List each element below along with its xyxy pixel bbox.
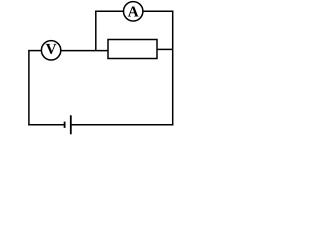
ammeter A bbox=[124, 2, 143, 21]
resistor R bbox=[108, 40, 157, 59]
wire: ammeter branch top, junction to ammeter bbox=[95, 10, 123, 12]
wire: ammeter to right vertical bbox=[143, 10, 174, 12]
voltmeter V bbox=[41, 41, 60, 60]
wire: right vertical of outer loop bbox=[172, 11, 174, 126]
wire: voltmeter to resistor bbox=[61, 50, 108, 52]
cell (battery): short negative plate bbox=[64, 122, 66, 128]
cell (battery): long positive plate bbox=[70, 115, 72, 134]
wire: bottom right segment (from cell) bbox=[71, 124, 174, 126]
node: junction of ammeter branch with main wire bbox=[95, 11, 97, 51]
wire: top horizontal from left corner to voltmeter bbox=[28, 50, 41, 52]
wire: resistor to right vertical bbox=[157, 48, 173, 50]
wire: bottom left segment (to cell) bbox=[28, 124, 64, 126]
wire: left vertical of outer loop bbox=[28, 51, 30, 126]
